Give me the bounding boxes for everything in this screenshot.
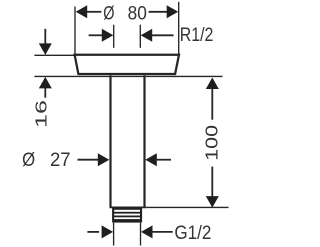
svg-text:100: 100 [201, 125, 221, 161]
svg-text:80: 80 [128, 3, 147, 24]
svg-text:Ø: Ø [22, 150, 35, 171]
svg-text:16: 16 [34, 100, 51, 128]
svg-text:Ø: Ø [103, 3, 114, 24]
svg-text:G1/2: G1/2 [174, 223, 211, 244]
svg-text:27: 27 [50, 150, 71, 171]
svg-text:R1/2: R1/2 [180, 25, 214, 46]
